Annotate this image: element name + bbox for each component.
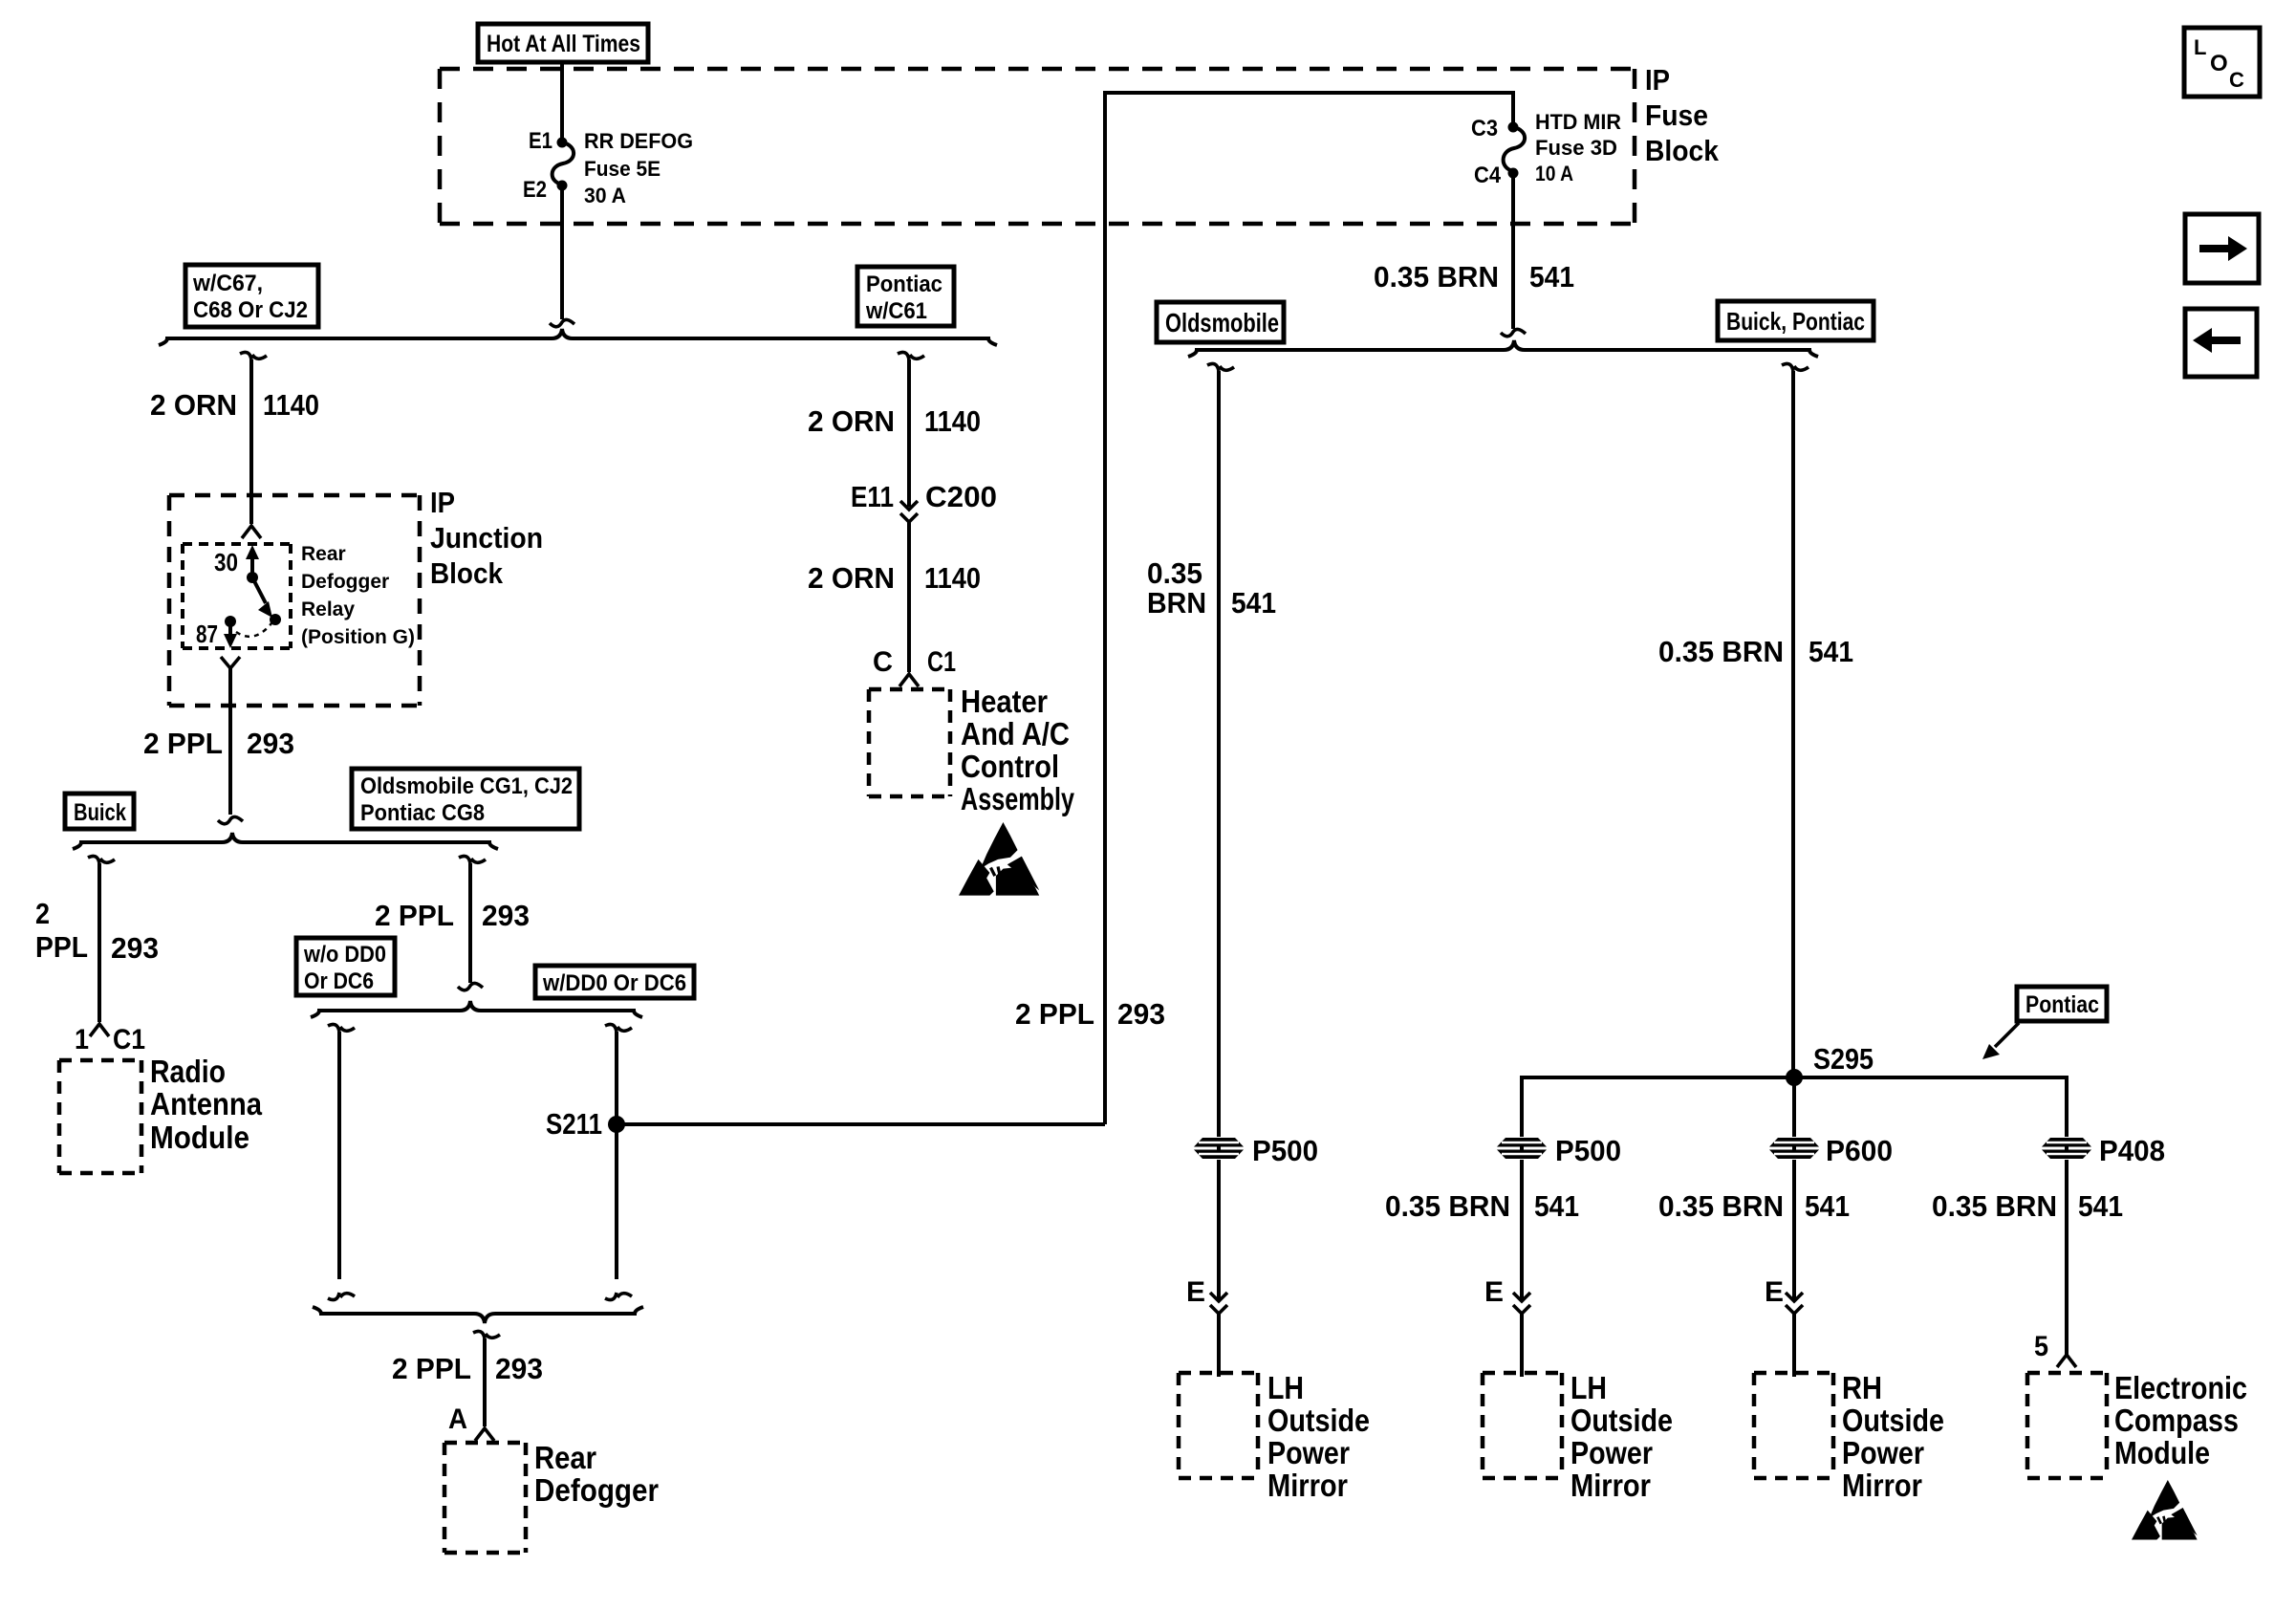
LH Outside Power Mirror name (Olds) [1267, 1370, 1370, 1503]
wire label 2 ORN 1140 (Pontiac upper) [808, 404, 981, 438]
pin E1 label [529, 128, 552, 154]
connector P600 label [1826, 1134, 1893, 1167]
wire: fuse C4 down to Oldsmobile/Buick bus [1501, 175, 1526, 337]
bus bracket: merge to rear defogger [313, 1307, 643, 1323]
label box: Buick [65, 794, 134, 829]
wire: top horizontal feed to HTD MIR fuse [1105, 93, 1513, 125]
svg-text:Heater: Heater [961, 684, 1048, 719]
wire label 2 PPL 293 (main riser) [1015, 997, 1165, 1031]
wire: 2 ORN 1140 to connector C200 [907, 359, 911, 507]
wire stub into LH mirror [1520, 1314, 1524, 1377]
in-line connector C200 pin E11 [900, 501, 918, 522]
branch hook: Buick PPL wire [88, 856, 115, 863]
svg-text:Pontiac: Pontiac [2025, 991, 2099, 1018]
connector label E11 / C200 [851, 480, 997, 513]
connector P408 label [2099, 1134, 2165, 1167]
component box: RH Outside Power Mirror [1754, 1373, 1833, 1478]
Heater And A/C Control Assembly name [961, 684, 1074, 816]
Radio Antenna Module name [150, 1054, 263, 1155]
svg-text:541: 541 [1805, 1189, 1850, 1223]
svg-text:0.35: 0.35 [1147, 556, 1202, 590]
label box: w/C67, C68 Or CJ2 [185, 265, 318, 327]
wire: P500 to LH mirror connector [1217, 1160, 1221, 1301]
svg-text:Power: Power [1570, 1435, 1653, 1470]
svg-text:E: E [1765, 1276, 1784, 1308]
component box: LH Outside Power Mirror (Olds) [1179, 1373, 1258, 1478]
pointer arrow from Pontiac label to S295 tie [1982, 1023, 2019, 1059]
label box: w/DD0 Or DC6 [535, 966, 694, 998]
svg-text:E: E [1484, 1276, 1504, 1308]
svg-text:Assembly: Assembly [961, 781, 1074, 816]
svg-text:w/DD0 Or DC6: w/DD0 Or DC6 [542, 970, 686, 996]
svg-text:293: 293 [247, 727, 294, 760]
svg-text:C: C [2229, 68, 2244, 92]
grommet connector P408 (compass) [2042, 1138, 2091, 1159]
svg-text:HTD MIR: HTD MIR [1535, 110, 1621, 134]
IP Junction Block dashed outline [169, 495, 420, 706]
svg-text:2 PPL: 2 PPL [143, 727, 223, 760]
svg-text:Rear: Rear [301, 543, 346, 565]
connector label 1 / C1 [75, 1024, 145, 1055]
svg-text:RR DEFOG: RR DEFOG [584, 129, 693, 153]
svg-text:O: O [2210, 51, 2228, 76]
bus bracket: DD0/DC6 option split [311, 1001, 642, 1017]
svg-text:2: 2 [35, 897, 50, 930]
wire: S295 down to P600 [1792, 1077, 1796, 1137]
component box: Rear Defogger [444, 1443, 526, 1553]
arrow box: left arrow [2185, 309, 2257, 377]
svg-text:C200: C200 [925, 480, 997, 513]
svg-text:C: C [873, 646, 893, 678]
svg-text:Hot At All Times: Hot At All Times [487, 31, 640, 57]
svg-text:2 ORN: 2 ORN [808, 404, 895, 438]
fuse 3D HTD MIR 10 A (element between pins C3/C4) [1504, 122, 1526, 179]
wire: 2 ORN 1140 down to relay pin 30 [249, 359, 253, 524]
svg-text:30 A: 30 A [584, 184, 626, 207]
svg-text:And A/C: And A/C [961, 716, 1070, 751]
svg-text:Block: Block [430, 556, 504, 590]
svg-text:Pontiac: Pontiac [866, 272, 942, 297]
svg-text:293: 293 [495, 1352, 543, 1385]
wire: rear defogger feed (w/DD0 Or DC6) through S211 [605, 1032, 632, 1300]
branch hook: Oldsmobile BRN wire [1207, 363, 1234, 371]
wire label 0.35 BRN 541 (RH mirror) [1658, 1189, 1850, 1223]
svg-text:293: 293 [482, 899, 530, 932]
fuse 5E RR DEFOG 30 A (element between pins E1/E2) [552, 138, 574, 191]
wire: P600 to RH mirror [1792, 1160, 1796, 1301]
svg-text:Outside: Outside [1267, 1403, 1370, 1438]
connector pin C of C1 (heater control) [899, 674, 919, 686]
splice S295 [1786, 1069, 1803, 1086]
svg-text:10 A: 10 A [1535, 162, 1573, 185]
connector pin 1 of C1 (radio antenna module) [90, 1024, 109, 1036]
Rear Defogger Relay dashed outline [183, 544, 291, 648]
component box: Heater And A/C Control Assembly [869, 689, 950, 796]
svg-text:293: 293 [1117, 997, 1165, 1031]
splice S211 [608, 1116, 625, 1133]
svg-text:LH: LH [1267, 1370, 1304, 1405]
relay pin 87 exit connector [221, 657, 240, 668]
svg-text:2 PPL: 2 PPL [375, 899, 454, 932]
connector pin E (RH mirror) [1765, 1276, 1803, 1314]
svg-text:Rear: Rear [534, 1440, 596, 1475]
branch hook: Olds/Pontiac PPL wire [459, 856, 486, 863]
wire: 0.35 BRN 541 (Buick, Pontiac) to S295 [1791, 371, 1795, 1077]
label box: Pontiac w/C61 [857, 267, 954, 326]
component box: LH Outside Power Mirror [1483, 1373, 1562, 1478]
wire label 2 PPL 293 (center) [375, 899, 530, 932]
svg-text:Power: Power [1267, 1435, 1350, 1470]
svg-text:Module: Module [2114, 1435, 2210, 1470]
Electronic Compass Module name [2114, 1370, 2247, 1470]
svg-text:(Position G): (Position G) [301, 626, 415, 648]
svg-text:E: E [1186, 1276, 1205, 1308]
svg-text:Oldsmobile: Oldsmobile [1165, 308, 1279, 337]
connector label C / C1 [873, 646, 956, 678]
RH Outside Power Mirror name [1842, 1370, 1944, 1503]
wire: 2 PPL 293 to radio antenna module [97, 863, 101, 1022]
svg-text:0.35 BRN: 0.35 BRN [1374, 260, 1499, 294]
svg-text:C1: C1 [113, 1024, 145, 1055]
pin C3 label [1471, 116, 1498, 141]
connector pin E (LH mirror) [1484, 1276, 1530, 1314]
svg-text:293: 293 [111, 931, 159, 965]
exit hook: rear defogger wire [473, 1331, 500, 1338]
svg-text:541: 541 [1529, 260, 1574, 294]
splice S295 label [1813, 1042, 1874, 1076]
svg-text:IP: IP [1645, 63, 1670, 97]
svg-text:Block: Block [1645, 134, 1720, 167]
svg-text:Defogger: Defogger [534, 1472, 659, 1508]
pin E2 label [523, 177, 547, 203]
connector P500 label (LH mirror) [1555, 1134, 1621, 1167]
wire label 0.35 BRN 541 (compass) [1932, 1189, 2123, 1223]
label box: Oldsmobile CG1, CJ2 / Pontiac CG8 [352, 769, 579, 829]
component box: Electronic Compass Module [2027, 1373, 2107, 1478]
bus bracket under RR DEFOG fuse (node splice to branches) [159, 329, 997, 345]
svg-text:w/o DD0: w/o DD0 [303, 942, 386, 968]
fuse 3D value label [1535, 110, 1621, 185]
component box: Radio Antenna Module [59, 1060, 141, 1173]
wire stub into RH mirror [1792, 1314, 1796, 1377]
wire: 2 ORN 1140 from C200 to heater control [907, 522, 911, 672]
connector pin A (rear defogger) [475, 1428, 494, 1441]
svg-text:Pontiac CG8: Pontiac CG8 [360, 800, 485, 826]
svg-text:Electronic: Electronic [2114, 1370, 2247, 1405]
branch hook: w/DD0 wire [605, 1024, 632, 1032]
wire: S211 tie to main PPL riser [617, 1122, 1105, 1126]
arrow box: right arrow [2185, 214, 2259, 283]
pin C4 label [1474, 163, 1502, 188]
branch hook: ORN wire (Pontiac w/C61) start [898, 352, 924, 359]
svg-text:Fuse 3D: Fuse 3D [1535, 136, 1617, 160]
connector pin 5 (compass module) [2034, 1331, 2076, 1367]
branch hook: ORN wire (w/C67) start [240, 352, 267, 359]
connector pin E (LH mirror, Olds) [1186, 1276, 1227, 1314]
wire label 2 ORN 1140 (left) [150, 388, 319, 422]
svg-text:C68 Or CJ2: C68 Or CJ2 [193, 297, 308, 323]
svg-text:0.35 BRN: 0.35 BRN [1658, 1189, 1784, 1223]
wire label 0.35 BRN 541 (Oldsmobile) [1147, 556, 1276, 620]
wire: 2 PPL 293 to rear defogger [483, 1338, 487, 1426]
IP Fuse Block dashed outline [440, 69, 1635, 224]
branch hook: Buick/Pontiac BRN wire [1782, 363, 1809, 371]
svg-text:Or DC6: Or DC6 [304, 968, 374, 994]
splice S295 tie bar [1522, 1077, 2067, 1137]
svg-text:E2: E2 [523, 177, 547, 203]
splice S211 label [546, 1107, 602, 1141]
svg-text:Mirror: Mirror [1570, 1468, 1651, 1503]
svg-text:2 ORN: 2 ORN [808, 561, 895, 595]
relay pin 30 label [214, 548, 238, 577]
LOC reference box [2184, 28, 2260, 97]
svg-text:Control: Control [961, 749, 1059, 784]
IP Fuse Block name [1645, 63, 1720, 167]
relay fixed contact 30 (arrow up) [246, 545, 259, 583]
svg-text:S295: S295 [1813, 1042, 1874, 1076]
relay pin 87 label [196, 620, 218, 648]
svg-text:Module: Module [150, 1120, 249, 1155]
svg-text:5: 5 [2034, 1331, 2048, 1362]
svg-text:2 PPL: 2 PPL [1015, 997, 1094, 1031]
svg-text:541: 541 [1534, 1189, 1579, 1223]
wire label 2 PPL 293 (rear defogger) [392, 1352, 543, 1385]
svg-text:1140: 1140 [924, 561, 981, 595]
svg-text:0.35 BRN: 0.35 BRN [1385, 1189, 1510, 1223]
svg-text:Fuse 5E: Fuse 5E [584, 157, 661, 181]
connector P500 label (Oldsmobile) [1252, 1134, 1318, 1167]
svg-text:Relay: Relay [301, 598, 355, 620]
svg-text:P500: P500 [1252, 1134, 1318, 1167]
wire label 0.35 BRN 541 (LH mirror) [1385, 1189, 1579, 1223]
wire: P408 to electronic compass module [2065, 1160, 2069, 1355]
svg-text:Outside: Outside [1570, 1403, 1673, 1438]
svg-text:Radio: Radio [150, 1054, 226, 1089]
svg-text:S211: S211 [546, 1107, 602, 1141]
svg-text:0.35 BRN: 0.35 BRN [1932, 1189, 2057, 1223]
svg-text:C1: C1 [927, 646, 956, 678]
wire: 0.35 BRN 541 (Oldsmobile) to P500 [1217, 371, 1221, 1137]
wire: fuse E2 down to bus [550, 187, 574, 327]
wire label 2 ORN 1140 (Pontiac lower) [808, 561, 981, 595]
wire label 2 PPL 293 (Buick branch) [35, 897, 159, 965]
svg-text:0.35 BRN: 0.35 BRN [1658, 635, 1784, 668]
svg-text:Mirror: Mirror [1267, 1468, 1348, 1503]
branch hook: w/o DD0 wire [328, 1024, 355, 1032]
wire label 0.35 BRN 541 (fuse C4 output) [1374, 260, 1574, 294]
wire: P500 to LH mirror [1520, 1160, 1524, 1301]
grommet connector P500 (Oldsmobile) [1194, 1138, 1244, 1159]
svg-text:2 PPL: 2 PPL [392, 1352, 471, 1385]
svg-text:Compass: Compass [2114, 1403, 2239, 1438]
IP Junction Block name [430, 486, 543, 590]
svg-text:30: 30 [214, 548, 238, 577]
svg-text:Power: Power [1842, 1435, 1924, 1470]
svg-text:541: 541 [1809, 635, 1853, 668]
bus bracket: splice of 2 PPL 293 (Buick / Olds-Pontiac) [73, 833, 498, 849]
label box: Hot At All Times [478, 24, 648, 62]
wire label 0.35 BRN 541 (Buick, Pontiac) [1658, 635, 1853, 668]
svg-text:P600: P600 [1826, 1134, 1893, 1167]
svg-text:Junction: Junction [430, 521, 543, 555]
svg-text:C4: C4 [1474, 163, 1502, 188]
svg-text:541: 541 [1231, 586, 1276, 620]
wire stub into LH mirror (Olds) [1217, 1314, 1221, 1377]
svg-text:P500: P500 [1555, 1134, 1621, 1167]
svg-text:BRN: BRN [1147, 586, 1206, 620]
svg-text:1140: 1140 [263, 388, 319, 422]
svg-text:Defogger: Defogger [301, 571, 389, 593]
svg-text:E11: E11 [851, 480, 894, 513]
svg-text:541: 541 [2078, 1189, 2123, 1223]
wire: rear defogger feed (w/o DD0 Or DC6) [328, 1032, 355, 1300]
label box: Buick, Pontiac [1718, 301, 1874, 340]
label box: Oldsmobile [1157, 302, 1284, 342]
svg-text:E1: E1 [529, 128, 552, 154]
svg-text:IP: IP [430, 486, 455, 519]
svg-text:RH: RH [1842, 1370, 1882, 1405]
label box: Pontiac (compass option) [2017, 987, 2107, 1021]
svg-text:Buick, Pontiac: Buick, Pontiac [1726, 307, 1865, 336]
svg-text:Mirror: Mirror [1842, 1468, 1922, 1503]
wire: main 2 PPL riser from IP fuse block area [1103, 93, 1107, 1124]
bus bracket: HTD MIR fuse output split [1188, 340, 1818, 357]
svg-text:L: L [2194, 35, 2206, 59]
label box: w/o DD0 Or DC6 [296, 938, 395, 995]
ESD sensitivity symbol (compass module) [2132, 1480, 2198, 1539]
svg-text:2 ORN: 2 ORN [150, 388, 237, 422]
svg-text:Oldsmobile CG1, CJ2: Oldsmobile CG1, CJ2 [360, 773, 573, 799]
wire: relay 87 output (2 PPL) down to Buick/Olds bus [218, 668, 243, 824]
svg-text:Antenna: Antenna [150, 1086, 263, 1121]
svg-text:w/C67,: w/C67, [192, 271, 263, 296]
svg-text:Buick: Buick [74, 799, 126, 826]
svg-text:Fuse: Fuse [1645, 98, 1708, 132]
LH Outside Power Mirror name [1570, 1370, 1673, 1503]
relay alternate-position dashed arc [236, 623, 271, 637]
svg-text:P408: P408 [2099, 1134, 2165, 1167]
svg-text:LH: LH [1570, 1370, 1607, 1405]
relay pin 30 connector [242, 526, 261, 538]
grommet connector P500 (LH mirror) [1497, 1138, 1547, 1159]
relay movable arm (position G) [252, 577, 281, 625]
wire label 2 PPL 293 (relay output) [143, 727, 294, 760]
wire: 2 PPL 293 down to DD0 split [458, 863, 483, 990]
svg-text:Outside: Outside [1842, 1403, 1944, 1438]
connector pin A label [448, 1403, 467, 1435]
svg-text:w/C61: w/C61 [865, 298, 927, 324]
svg-text:87: 87 [196, 620, 218, 648]
svg-text:C3: C3 [1471, 116, 1498, 141]
svg-text:1: 1 [75, 1024, 89, 1055]
svg-text:PPL: PPL [35, 930, 88, 964]
Rear Defogger name [534, 1440, 659, 1508]
ESD sensitivity symbol (heater control) [959, 822, 1039, 896]
Rear Defogger Relay name [301, 543, 415, 648]
relay contact 87 dot [225, 616, 236, 627]
svg-text:1140: 1140 [924, 404, 981, 438]
relay contact 87 (arrow down) [224, 621, 237, 648]
svg-text:A: A [448, 1403, 467, 1435]
fuse 5E value label [584, 129, 693, 207]
grommet connector P600 (RH mirror) [1769, 1138, 1819, 1159]
wire: feed from Hot At All Times into fuse 5E [560, 62, 564, 141]
